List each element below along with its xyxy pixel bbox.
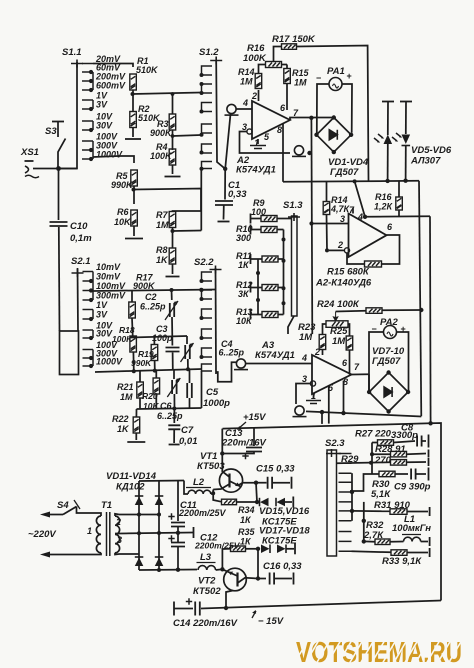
VD5 emission arrows xyxy=(374,134,383,142)
svg-text:C7: C7 xyxy=(181,425,194,436)
switch S1.3 bar xyxy=(292,216,298,316)
op-amp A3 K574UD1 xyxy=(312,355,352,394)
pin7 stub xyxy=(352,208,354,214)
svg-text:100K: 100K xyxy=(243,53,267,64)
S2.3 bus B xyxy=(363,502,365,542)
svg-text:2: 2 xyxy=(337,240,343,250)
S2.3 contact stubs xyxy=(339,454,352,552)
svg-text:1К: 1К xyxy=(240,515,252,525)
svg-text:4,7К: 4,7К xyxy=(330,204,351,214)
wire R1 to R2 node xyxy=(132,90,134,112)
svg-text:990K: 990K xyxy=(111,180,134,190)
svg-text:900K: 900K xyxy=(150,128,173,138)
capacitor C14 xyxy=(173,602,175,616)
VT2 base wire xyxy=(238,578,259,583)
op-amp A2 K140UD6 triangle xyxy=(349,214,387,258)
svg-text:L3: L3 xyxy=(200,552,212,563)
node VT1 collector xyxy=(220,451,224,455)
svg-text:270: 270 xyxy=(374,455,392,466)
filter left bus xyxy=(371,443,373,475)
svg-text:1,2К: 1,2К xyxy=(374,202,394,212)
svg-text:C9 390р: C9 390р xyxy=(394,482,431,493)
resistor R6 xyxy=(131,210,138,226)
diode VD13 xyxy=(135,558,144,567)
T1 center tap xyxy=(115,533,119,535)
svg-text:R14: R14 xyxy=(238,67,255,77)
svg-text:1M: 1M xyxy=(240,77,253,87)
svg-text:C5: C5 xyxy=(206,387,219,398)
svg-text:2200m/25V: 2200m/25V xyxy=(178,508,227,518)
tap 3 wire xyxy=(119,553,139,555)
svg-text:S2.3: S2.3 xyxy=(325,438,345,449)
S1.3 right bus xyxy=(283,230,285,315)
switch S2.1 wafer rectangle xyxy=(60,331,79,375)
svg-text:30V: 30V xyxy=(96,121,113,131)
diode VD14 xyxy=(155,558,164,567)
wire S2.2 bottom contact bus down xyxy=(201,371,203,408)
resistor R1 xyxy=(130,74,137,90)
pin2 wire xyxy=(329,249,344,251)
S1.2 contacts xyxy=(202,66,213,169)
VT1 emitter with arrow xyxy=(230,481,241,487)
wire node down to C10 xyxy=(58,169,60,221)
wire R3 top xyxy=(172,94,174,114)
svg-text:C10: C10 xyxy=(70,221,88,232)
svg-text:КТ503: КТ503 xyxy=(197,461,225,472)
positive rail top xyxy=(139,480,184,483)
svg-text:А2-К140УД6: А2-К140УД6 xyxy=(315,278,372,289)
pin4 horizontal wire xyxy=(365,215,430,218)
wire R24 row xyxy=(336,310,366,313)
node on output line xyxy=(320,410,324,414)
A2 pin3 input circle xyxy=(247,129,252,134)
svg-text:C15 0,33: C15 0,33 xyxy=(256,464,295,475)
output line to V1 xyxy=(306,411,421,416)
svg-text:R34: R34 xyxy=(238,505,255,515)
svg-text:1V: 1V xyxy=(96,300,108,310)
svg-text:0,1m: 0,1m xyxy=(70,233,92,244)
R14 top wire to R16 pot xyxy=(259,65,267,74)
svg-text:6..25p: 6..25p xyxy=(157,411,183,421)
wire L3 to VT2 node xyxy=(216,568,223,571)
zener VD15 xyxy=(260,498,269,507)
svg-text:300: 300 xyxy=(236,233,251,243)
main node line y370 xyxy=(95,369,202,372)
node R3/R4 xyxy=(172,130,174,150)
node R7/R8 xyxy=(172,227,174,248)
svg-text:C16 0,33: C16 0,33 xyxy=(263,561,302,572)
svg-text:R21: R21 xyxy=(117,382,134,392)
svg-text:1M: 1M xyxy=(156,220,169,230)
svg-text:2: 2 xyxy=(314,347,320,357)
svg-text:К574УД1: К574УД1 xyxy=(236,165,276,176)
svg-text:PA1: PA1 xyxy=(327,66,345,77)
wire 100mV line to S2.2 xyxy=(93,290,216,292)
S2.3 right bus A xyxy=(351,473,353,521)
svg-text:R35: R35 xyxy=(238,527,256,537)
resistor R18 xyxy=(130,336,137,352)
svg-text:ГД507: ГД507 xyxy=(372,356,401,367)
svg-text:S3: S3 xyxy=(45,126,57,137)
svg-text:900K: 900K xyxy=(133,281,156,291)
svg-text:S4: S4 xyxy=(57,500,69,511)
svg-text:R27 220: R27 220 xyxy=(355,429,392,440)
switch S2.1 bar xyxy=(77,268,80,331)
op-amp A2 K574UD1 triangle xyxy=(252,101,290,139)
wire S2.2 wiper to A3 input jack xyxy=(216,362,236,382)
wire node to +15 rail xyxy=(321,412,323,424)
svg-text:R22: R22 xyxy=(112,414,129,424)
R17 right wire to LED rail xyxy=(297,46,369,182)
PA1 loop wires xyxy=(317,84,329,134)
LED VD5 xyxy=(382,101,394,103)
svg-text:VT2: VT2 xyxy=(198,576,216,587)
svg-text:S1.3: S1.3 xyxy=(283,200,303,211)
svg-text:S2.2: S2.2 xyxy=(194,257,214,268)
svg-text:VD15,VD16: VD15,VD16 xyxy=(259,506,310,517)
wire rail corner down to VT1 xyxy=(221,429,223,469)
S2.1 contact buses xyxy=(92,272,94,367)
watermark stencil texture xyxy=(294,640,473,664)
wire zener node down to C16 node xyxy=(257,549,259,579)
wire jack to A3 pin4 xyxy=(246,363,312,365)
wire R19 bottom xyxy=(154,361,156,371)
svg-text:T1: T1 xyxy=(101,500,112,511)
svg-text:VD5-VD6: VD5-VD6 xyxy=(411,145,452,156)
svg-text:3V: 3V xyxy=(96,310,108,320)
output jack of A2 stage xyxy=(292,146,306,157)
dots on line y370 xyxy=(132,369,136,373)
node on output wire xyxy=(309,116,313,120)
output pin6 wire xyxy=(382,235,400,264)
svg-text:R15: R15 xyxy=(292,68,310,78)
resistor R4 xyxy=(169,149,176,165)
wire node to S1.2 contact xyxy=(133,93,202,95)
wire R17 to R18 xyxy=(131,318,134,338)
wire R18 to main node line xyxy=(132,352,134,371)
svg-text:R33 9,1К: R33 9,1К xyxy=(382,556,422,567)
S1.3 wiper tick xyxy=(288,213,300,221)
A2 pin8 wire down to supply rail xyxy=(282,124,284,182)
svg-text:1М: 1М xyxy=(299,332,313,343)
svg-text:600mV: 600mV xyxy=(96,81,126,91)
R23 wire to A3 pin2 xyxy=(322,350,324,356)
diode bridge VD7-VD10 xyxy=(369,373,408,412)
A3 pin8 stub to output line xyxy=(343,381,345,414)
svg-text:КД102: КД102 xyxy=(116,482,145,493)
-15V label with arrow xyxy=(252,611,256,618)
negative rail bottom xyxy=(139,569,197,572)
wire jack to A2 pin4 xyxy=(236,108,252,110)
R15 left wire to pin2 node xyxy=(347,253,365,264)
svg-text:5,1К: 5,1К xyxy=(371,489,391,500)
-15V rail xyxy=(201,601,441,609)
svg-text:30mV: 30mV xyxy=(96,272,121,282)
svg-text:АЛ307: АЛ307 xyxy=(410,156,441,167)
wire rail to L2 xyxy=(184,481,188,495)
svg-text:1000V: 1000V xyxy=(96,150,123,160)
T1 core xyxy=(107,512,110,556)
R15 wires xyxy=(281,64,287,66)
S2.1 contact stubs xyxy=(83,272,94,367)
svg-text:4: 4 xyxy=(301,353,307,363)
S2.1 contact dots xyxy=(89,279,93,283)
svg-text:100мкГн: 100мкГн xyxy=(392,523,431,534)
svg-text:6..25p: 6..25p xyxy=(140,302,166,312)
A2 ground pin1/5 xyxy=(257,139,259,144)
wire 20mV row to R1 xyxy=(93,64,133,68)
VT2 emitter to L3 node (arrow) xyxy=(222,569,237,576)
svg-text:1000p: 1000p xyxy=(203,398,230,409)
wire R3/R4 node to S1.2 xyxy=(173,135,202,136)
node R35/VD17 xyxy=(246,548,260,550)
A3 output jack xyxy=(293,406,307,417)
R16 wiper to R17 xyxy=(274,47,283,62)
right vertical V1 from rail xyxy=(419,181,421,416)
node R34/diodes xyxy=(237,501,259,503)
feedback resistor R15 680K xyxy=(365,261,382,267)
wire R7/R8 node to left xyxy=(173,230,202,233)
svg-text:R16: R16 xyxy=(375,192,393,202)
center tap wire to C11/C12 xyxy=(119,533,193,534)
VD6 emission arrows xyxy=(392,133,401,141)
A3 output wire pin7 xyxy=(352,373,370,375)
node XS1/S3/S1.1 xyxy=(56,166,61,171)
S1.1 contact junction dots xyxy=(89,70,93,74)
svg-text:300mV: 300mV xyxy=(96,291,126,301)
capacitor C7 xyxy=(173,409,175,424)
svg-text:3: 3 xyxy=(242,122,247,132)
R25 wire to A3 output xyxy=(349,350,351,375)
svg-text:1M: 1M xyxy=(120,392,133,402)
svg-text:10K: 10K xyxy=(114,217,132,227)
wire S4 to T1 xyxy=(77,507,98,514)
svg-text:R7: R7 xyxy=(156,210,168,220)
svg-text:1: 1 xyxy=(87,526,92,536)
svg-text:100K: 100K xyxy=(150,151,173,161)
node R17 top xyxy=(170,288,174,292)
svg-text:XS1: XS1 xyxy=(20,147,39,158)
node R5/R6 xyxy=(133,186,135,204)
diode VD12 xyxy=(155,497,164,506)
switch S1.1 bar xyxy=(59,62,77,169)
tap 2 wire xyxy=(119,514,159,516)
VT1 base node xyxy=(211,491,215,495)
node line y408 xyxy=(137,408,202,409)
A2 output pin7 wire xyxy=(290,118,333,121)
svg-text:1K: 1K xyxy=(156,255,169,265)
svg-text:1M: 1M xyxy=(294,78,307,88)
A3 pin5 stub down xyxy=(328,387,330,424)
capacitor C6 trimmer xyxy=(173,369,175,379)
right vertical V2 xyxy=(429,216,432,423)
switch S1.1 wiper tick xyxy=(71,60,83,68)
rail junction with V2 xyxy=(428,421,432,425)
+15V rail xyxy=(223,423,442,601)
VD17-18 end bar xyxy=(286,548,294,550)
VD15-16 end bar xyxy=(284,501,292,503)
S2.3 wiper tick xyxy=(326,449,341,457)
svg-text:3: 3 xyxy=(340,214,345,224)
A3 pin3 loop to output jack xyxy=(296,384,310,405)
ground under R8 xyxy=(172,264,174,274)
switch S2.2 bar xyxy=(215,268,218,374)
wire output node down to A3 input net xyxy=(310,118,313,334)
bridge top wire xyxy=(388,372,390,374)
svg-text:8: 8 xyxy=(277,125,282,135)
wire R24 to V1 xyxy=(382,309,421,311)
VT1 collector diagonal xyxy=(222,469,229,477)
resistor R5 xyxy=(131,170,138,186)
svg-text:4: 4 xyxy=(242,98,248,108)
T1 secondary xyxy=(115,516,120,553)
capacitor C2 (trimmer) xyxy=(171,290,173,300)
rectifier column 2 xyxy=(158,481,160,570)
ground under R22 xyxy=(127,441,145,443)
C1 open end xyxy=(223,205,225,220)
ground under R6 xyxy=(133,226,135,236)
A2 pin2 wire with R14a xyxy=(258,90,260,101)
pin4 supply node xyxy=(363,215,367,219)
resistor R3 xyxy=(169,114,176,130)
resistor R2 xyxy=(130,112,137,128)
svg-text:R6: R6 xyxy=(117,207,129,217)
svg-text:КС175Е: КС175Е xyxy=(262,536,297,547)
R14b bottom to pin2 node xyxy=(326,215,329,251)
A2 pin3 feedback loop wire xyxy=(240,132,291,154)
svg-text:3V: 3V xyxy=(96,100,108,110)
LED VD6 xyxy=(400,101,412,103)
rectifier column 1 xyxy=(138,481,140,570)
svg-text:4: 4 xyxy=(357,212,363,222)
svg-text:+15V: +15V xyxy=(243,412,266,423)
wire 1000V group to R5 xyxy=(93,156,134,163)
wire XS1 to node xyxy=(33,168,77,170)
wire bus to R30 row xyxy=(350,474,372,491)
VT1 emitter node wire xyxy=(238,483,256,486)
svg-text:+: + xyxy=(347,71,352,81)
PA2 loop wires xyxy=(369,332,384,392)
svg-text:S1.1: S1.1 xyxy=(62,47,82,58)
svg-text:1К: 1К xyxy=(240,537,252,547)
wire S1.2 wiper up to jack xyxy=(225,114,230,169)
rail dots xyxy=(353,179,357,183)
svg-text:R15 680К: R15 680К xyxy=(327,267,370,278)
switch S2.3 bar xyxy=(327,450,337,556)
pot R25 body xyxy=(326,321,348,328)
wire L2 to VT1 base node xyxy=(211,492,213,495)
capacitor C5 xyxy=(189,369,191,383)
svg-text:100mV: 100mV xyxy=(96,281,126,291)
capacitor C4a trimmer on line xyxy=(186,336,188,344)
ground under R2 xyxy=(132,127,134,137)
svg-text:R24 100К: R24 100К xyxy=(317,299,360,310)
svg-text:3300р: 3300р xyxy=(391,430,418,441)
input jack of A2 xyxy=(225,104,239,115)
svg-text:К574УД1: К574УД1 xyxy=(255,350,295,361)
svg-text:1М: 1М xyxy=(332,336,346,347)
wire A3 out to bridge left xyxy=(368,374,370,392)
svg-text:3К: 3К xyxy=(238,289,250,299)
svg-text:1К: 1К xyxy=(238,260,250,270)
svg-text:R8: R8 xyxy=(156,245,168,255)
svg-text:2: 2 xyxy=(251,91,257,101)
wire emitter node to zener node xyxy=(256,483,257,502)
svg-text:~220V: ~220V xyxy=(28,529,56,540)
capacitor C1 from S1.2 wiper xyxy=(224,169,226,200)
svg-text:10mV: 10mV xyxy=(96,262,121,272)
lower mains wire xyxy=(40,552,50,558)
S2.2 wiper tick xyxy=(210,266,222,274)
svg-text:L2: L2 xyxy=(193,477,205,488)
svg-text:−: − xyxy=(316,73,321,83)
A3 ground pin1 xyxy=(313,394,315,399)
S1.1 contact buses xyxy=(92,72,94,159)
capacitor C3 xyxy=(171,337,173,346)
svg-text:C6: C6 xyxy=(160,401,172,411)
S1.2 wiper tick xyxy=(210,57,222,65)
VT2 collector wire xyxy=(226,591,233,609)
pin3 input wire xyxy=(312,223,349,225)
svg-text:30V: 30V xyxy=(96,329,113,339)
svg-text:6..25p: 6..25p xyxy=(219,348,245,358)
S1.3 bottom diagonal xyxy=(288,316,294,334)
feedback node at jack xyxy=(307,151,311,155)
node R1/R2 xyxy=(131,92,135,96)
diode bridge VD1-VD4 xyxy=(317,118,352,153)
ground under R4 xyxy=(172,165,174,174)
S2.2 contact dots xyxy=(200,279,204,283)
pin2 input circle xyxy=(344,248,349,253)
VT1 base wire xyxy=(213,484,229,490)
switch S1.2 bar xyxy=(216,60,225,169)
S1.3 left bus xyxy=(257,259,259,315)
S1.2 contact dots xyxy=(200,73,204,77)
svg-text:C2: C2 xyxy=(145,292,157,302)
svg-text:1K: 1K xyxy=(117,424,130,434)
wire C10 to S2.1 xyxy=(58,227,61,331)
A3 pin3 circle xyxy=(310,381,315,386)
capacitor C10 xyxy=(50,222,68,226)
svg-text:КТ502: КТ502 xyxy=(193,586,221,597)
svg-text:3: 3 xyxy=(302,374,307,384)
diode VD11 xyxy=(135,497,144,506)
resistor R17 (900K) xyxy=(131,291,133,302)
switch S2.1 wiper tick xyxy=(72,269,84,277)
svg-text:0,33: 0,33 xyxy=(228,189,247,200)
diagonal wire rail to pin4 xyxy=(355,181,365,216)
zener VD18 xyxy=(277,545,286,554)
svg-text:0,01: 0,01 xyxy=(179,436,198,447)
zener VD17 xyxy=(261,545,270,554)
rail dot VT2 xyxy=(224,606,228,610)
svg-text:510K: 510K xyxy=(136,65,159,75)
S1.2 bus continuation down xyxy=(200,169,202,231)
svg-text:C14 220m/16V: C14 220m/16V xyxy=(173,618,238,629)
svg-text:− 15V: − 15V xyxy=(258,616,284,627)
wire R5 node right xyxy=(134,189,202,212)
svg-text:990K: 990K xyxy=(131,358,152,368)
S2.2 contacts xyxy=(202,272,213,371)
S1.1 contact stubs xyxy=(82,64,93,160)
wire C2 down to line 336 xyxy=(171,317,173,337)
svg-text:ГД507: ГД507 xyxy=(330,167,359,178)
svg-text:S1.2: S1.2 xyxy=(199,47,219,58)
horizontal wire y336 xyxy=(131,336,188,338)
svg-text:1000V: 1000V xyxy=(96,357,123,367)
A3 input jack xyxy=(234,359,248,370)
svg-text:S2.1: S2.1 xyxy=(71,256,91,267)
